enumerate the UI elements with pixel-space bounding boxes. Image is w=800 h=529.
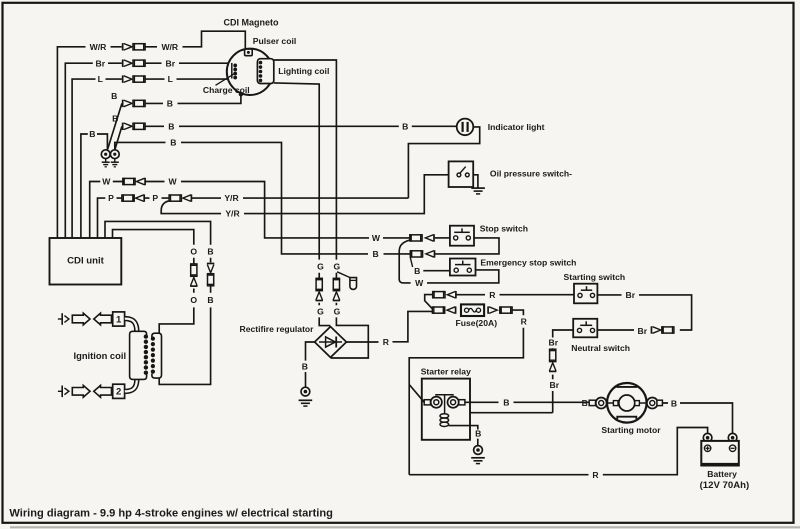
svg-text:G: G: [317, 261, 324, 271]
battery plus: [704, 445, 710, 451]
svg-text:R: R: [383, 337, 390, 347]
svg-text:B: B: [112, 114, 118, 124]
svg-text:CDI Magneto: CDI Magneto: [224, 18, 280, 28]
svg-text:Br: Br: [549, 338, 559, 348]
svg-text:O: O: [190, 295, 197, 305]
relay terminal right: [448, 397, 459, 408]
ignition coil T1 secondary winding: [130, 331, 147, 379]
motor left eyelet: [596, 398, 607, 409]
wire fuse output: [409, 310, 523, 475]
high tension lead 2: [125, 379, 137, 391]
svg-text:Br: Br: [166, 58, 176, 68]
svg-text:B: B: [372, 249, 378, 259]
svg-text:B: B: [302, 361, 308, 371]
svg-text:B: B: [207, 246, 213, 256]
charge coil: [231, 63, 233, 79]
svg-text:L: L: [98, 74, 103, 84]
wire P row to CDI unit: [98, 198, 122, 238]
svg-text:Neutral switch: Neutral switch: [571, 343, 630, 353]
svg-text:W: W: [415, 278, 424, 288]
svg-text:G: G: [334, 261, 341, 271]
wire W crossover link: [399, 240, 410, 283]
connector pair fuse right: [487, 306, 489, 313]
relay terminal left tab: [424, 400, 430, 405]
motor right tab: [657, 400, 663, 405]
svg-text:B: B: [671, 398, 677, 408]
svg-text:1: 1: [116, 314, 122, 325]
spark plug lead 1: [58, 318, 62, 320]
connector G right: [333, 278, 339, 290]
connector pair Br: [650, 326, 652, 333]
wire relay coil to neutral switch: [470, 412, 553, 414]
connector pair B stop: [410, 251, 422, 257]
svg-text:Battery: Battery: [707, 469, 737, 479]
svg-text:Stop switch: Stop switch: [480, 224, 528, 234]
wire stop switch loop: [435, 238, 499, 254]
wire motor to battery: [662, 403, 732, 433]
relay terminal right tab: [459, 400, 465, 405]
unused connector stub: [337, 272, 350, 278]
svg-text:W/R: W/R: [161, 42, 178, 52]
rectifier ground eyelet: [301, 387, 310, 396]
connector pair B row1: [122, 100, 124, 107]
indicator light: [457, 119, 474, 136]
wire relay coil to ground: [449, 426, 478, 446]
battery terminal left: [703, 433, 712, 442]
wire R to starting switch: [457, 294, 575, 296]
wire B row3 to emergency connector: [181, 142, 410, 254]
svg-text:Wiring diagram - 9.9 hp 4-stro: Wiring diagram - 9.9 hp 4-stroke engines…: [9, 508, 333, 520]
motor left tab: [589, 400, 595, 405]
svg-text:CDI unit: CDI unit: [67, 256, 105, 267]
svg-text:G: G: [334, 306, 341, 316]
svg-text:R: R: [521, 317, 528, 327]
connector pair W: [123, 178, 135, 184]
rectifier regulator: [315, 327, 347, 358]
svg-text:B: B: [414, 266, 420, 276]
wire P link: [144, 197, 169, 199]
wire to stop switch: [435, 237, 450, 239]
wire oil switch ground lead: [473, 175, 478, 188]
rectifier diode: [319, 341, 342, 343]
starting switch: [574, 284, 597, 304]
svg-text:P: P: [152, 193, 158, 203]
wire B from CDI top: [105, 221, 211, 262]
svg-text:B: B: [167, 99, 173, 109]
svg-text:Indicator light: Indicator light: [488, 122, 545, 132]
svg-text:2: 2: [116, 387, 121, 398]
svg-text:Br: Br: [96, 58, 106, 68]
svg-text:L: L: [168, 74, 173, 84]
svg-text:P: P: [108, 193, 114, 203]
connector G left: [316, 278, 322, 290]
motor links: [607, 402, 619, 404]
wire B to emergency switch: [423, 270, 450, 272]
wire G left from lighting coil: [274, 83, 319, 278]
CDI unit: [50, 238, 122, 285]
wire neutral switch left: [553, 330, 574, 349]
battery terminal right: [728, 433, 737, 442]
relay coil: [440, 414, 449, 418]
svg-text:Y/R: Y/R: [224, 193, 239, 203]
wire B rectifier ground: [306, 342, 315, 387]
battery minus: [729, 445, 735, 451]
svg-text:Br: Br: [638, 326, 648, 336]
svg-text:Br: Br: [550, 380, 560, 390]
wire O from CDI top: [113, 230, 194, 264]
svg-text:Starting switch: Starting switch: [564, 272, 626, 282]
wire relay feed diagonal: [409, 385, 424, 403]
wire Y/R row2 hook: [161, 201, 221, 214]
relay ground: [471, 457, 485, 459]
svg-text:W: W: [169, 177, 178, 187]
svg-text:Emergency stop switch: Emergency stop switch: [480, 257, 576, 267]
wire B row1 to magneto bottom: [146, 95, 241, 103]
svg-text:B: B: [111, 91, 117, 101]
connector pair fuse: [432, 307, 444, 313]
svg-text:B: B: [475, 429, 481, 439]
wire Y/R row2 to oil pressure switch: [244, 175, 449, 214]
magneto bottom junction: [239, 92, 243, 96]
wire indicator to Y/R: [408, 127, 479, 198]
wire L row to CDI unit: [72, 79, 122, 238]
connector pair P 1: [122, 195, 134, 201]
svg-text:B: B: [168, 121, 174, 131]
connector B cdi: [207, 262, 214, 264]
connector pair B row2: [122, 123, 124, 130]
stop switch: [450, 226, 474, 246]
svg-text:(12V 70Ah): (12V 70Ah): [700, 480, 750, 491]
svg-text:Ignition coil: Ignition coil: [73, 350, 126, 361]
svg-text:B: B: [503, 397, 509, 407]
svg-text:G: G: [317, 306, 324, 316]
wire B row2 to indicator light: [146, 125, 457, 127]
wire G right to rectifier: [331, 303, 369, 358]
wire W to stop switch row: [145, 182, 410, 238]
motor brush bars: [617, 385, 636, 387]
CDI magneto flywheel: [227, 49, 273, 95]
wire relay to starting motor: [465, 401, 589, 403]
svg-text:Starter relay: Starter relay: [421, 366, 471, 376]
connector pair Br: [122, 60, 124, 67]
wire B row3 from terminal: [115, 142, 166, 149]
emergency stop switch: [450, 259, 476, 276]
wire Br row to CDI unit: [65, 63, 122, 238]
svg-text:B: B: [402, 121, 408, 131]
wire W row to CDI unit: [90, 182, 123, 239]
wire B row1 diagonal to terminal: [108, 103, 122, 149]
svg-text:W: W: [372, 233, 381, 243]
rectifier ground: [299, 399, 313, 401]
wire B link to emergency: [410, 257, 412, 267]
relay ground eyelet: [474, 446, 483, 455]
svg-text:Y/R: Y/R: [225, 209, 240, 219]
ground terminal eyelet right: [110, 150, 119, 159]
fuse housing: [461, 304, 484, 316]
wire R from rectifier: [346, 311, 432, 342]
lighting coil: [257, 59, 273, 84]
connector pair P 2: [169, 195, 181, 201]
svg-text:Lighting coil: Lighting coil: [278, 66, 329, 76]
wire R row link: [425, 295, 433, 309]
spark plug connector 1 arrows: [72, 313, 90, 325]
wire starting switch Br: [597, 295, 691, 330]
svg-text:Pulser coil: Pulser coil: [253, 36, 296, 46]
terminal box 2: [113, 384, 125, 398]
page bottom shadow: [10, 526, 800, 528]
oil pressure switch: [449, 161, 474, 187]
wire W/R row to CDI unit: [57, 47, 121, 238]
pulser coil: [245, 49, 253, 56]
ground right: [114, 159, 116, 162]
wire O to ignition coil: [159, 289, 194, 335]
relay terminal left: [431, 397, 442, 408]
wire Br to charge coil: [146, 62, 232, 64]
wire W to emergency loop: [427, 270, 499, 283]
oil switch ground: [471, 187, 485, 189]
wire Br to relay coil: [552, 375, 554, 413]
neutral switch: [573, 319, 597, 338]
motor inner: [619, 395, 635, 411]
svg-text:R: R: [489, 290, 496, 300]
svg-text:Rectifire regulator: Rectifire regulator: [240, 324, 315, 334]
svg-text:Fuse(20A): Fuse(20A): [456, 318, 498, 328]
svg-text:Br: Br: [626, 290, 636, 300]
wire R to battery: [603, 428, 708, 475]
motor right eyelet: [647, 398, 658, 409]
svg-text:R: R: [592, 470, 599, 480]
high tension lead 1: [125, 319, 137, 332]
ground left: [105, 159, 107, 162]
svg-text:Starting motor: Starting motor: [601, 425, 661, 435]
starting motor: [607, 383, 647, 423]
charge coil callout: [216, 74, 235, 86]
svg-text:W: W: [102, 177, 111, 187]
connector Br vertical: [550, 349, 556, 361]
wire G right from lighting coil: [274, 60, 337, 278]
relay contact bar: [435, 394, 454, 396]
svg-text:B: B: [170, 138, 176, 148]
svg-text:Oil pressure switch-: Oil pressure switch-: [490, 169, 572, 179]
wire W/R to pulser coil: [146, 31, 246, 49]
svg-text:B: B: [582, 398, 588, 408]
connector pair R: [433, 292, 445, 298]
wire G left to rectifier: [319, 303, 330, 326]
wire B to ignition coil: [159, 286, 210, 384]
connector pair W stop: [410, 235, 422, 241]
spark plug lead 2: [58, 390, 62, 392]
ground terminal eyelet left: [101, 150, 110, 159]
spark plug connector 2 arrows: [72, 385, 90, 397]
wire B bracket to CDI unit: [81, 134, 108, 238]
starter relay: [422, 379, 470, 440]
wire L to charge coil: [146, 78, 232, 80]
connector pair W/R: [122, 43, 124, 50]
ignition coil T1 primary winding: [152, 333, 162, 378]
connector pair L: [122, 75, 124, 82]
terminal box 1: [113, 312, 125, 326]
wire Y/R row1: [192, 197, 409, 199]
wire neutral switch right: [597, 329, 634, 331]
svg-text:B: B: [207, 295, 213, 305]
svg-text:W/R: W/R: [90, 42, 107, 52]
wire R bottom left: [409, 474, 588, 476]
svg-text:O: O: [190, 246, 197, 256]
battery: [701, 441, 739, 466]
connector O cdi: [191, 264, 197, 276]
svg-text:B: B: [89, 129, 95, 139]
wire B row2 diagonal to terminal: [115, 126, 122, 149]
